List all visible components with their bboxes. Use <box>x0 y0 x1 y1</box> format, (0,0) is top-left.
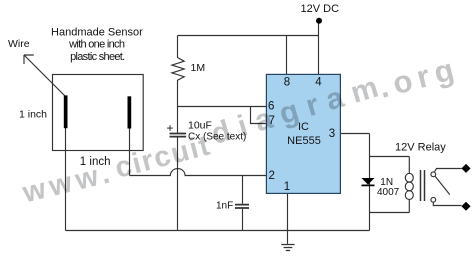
svg-text:1nF: 1nF <box>216 200 233 211</box>
svg-text:2: 2 <box>269 170 275 182</box>
svg-text:8: 8 <box>284 77 290 89</box>
svg-text:1M: 1M <box>191 62 206 74</box>
svg-text:12V DC: 12V DC <box>301 3 340 15</box>
svg-text:NE555: NE555 <box>287 135 321 147</box>
svg-text:with one inch: with one inch <box>68 39 125 51</box>
svg-text:Handmade Sensor: Handmade Sensor <box>51 27 143 39</box>
svg-text:4007: 4007 <box>377 187 400 198</box>
svg-text:plastic sheet.: plastic sheet. <box>70 51 125 63</box>
svg-text:1: 1 <box>284 181 290 193</box>
svg-text:.org: .org <box>375 52 457 105</box>
svg-text:circuit: circuit <box>112 130 213 185</box>
svg-text:12V Relay: 12V Relay <box>395 142 446 154</box>
svg-text:4: 4 <box>315 77 322 89</box>
svg-text:+: + <box>167 121 174 135</box>
svg-text:Wire: Wire <box>8 38 30 50</box>
svg-text:3: 3 <box>329 128 335 140</box>
svg-text:1 inch: 1 inch <box>19 109 47 121</box>
